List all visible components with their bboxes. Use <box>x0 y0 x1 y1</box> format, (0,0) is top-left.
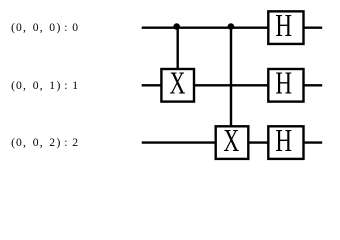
qubit label (0, 0, 2) : 2 <box>11 136 78 149</box>
wire CNOT2 vertical connector <box>230 28 232 126</box>
svg-text:X: X <box>170 66 186 101</box>
gate X1 box (CNOT1 target on qubit 1) <box>161 66 194 102</box>
qubit label (0, 0, 1) : 1 <box>11 79 78 92</box>
qubit label (0, 0, 0) : 0 <box>11 21 78 34</box>
gate H box on qubit 0 <box>268 8 303 44</box>
control dot CNOT1 on qubit 0 <box>173 23 180 30</box>
wire qubit 1 <box>142 84 323 86</box>
control dot CNOT2 on qubit 0 <box>228 23 235 30</box>
svg-text:H: H <box>275 123 292 158</box>
svg-text:H: H <box>275 8 292 43</box>
svg-text:H: H <box>275 65 292 100</box>
svg-text:X: X <box>223 123 239 158</box>
wire CNOT1 vertical connector <box>176 28 178 69</box>
wire qubit 0 <box>142 26 323 28</box>
gate X2 box (CNOT2 target on qubit 2) <box>216 123 249 159</box>
wire qubit 2 <box>142 141 323 143</box>
gate H box on qubit 2 <box>268 123 303 159</box>
gate H box on qubit 1 <box>268 65 303 101</box>
